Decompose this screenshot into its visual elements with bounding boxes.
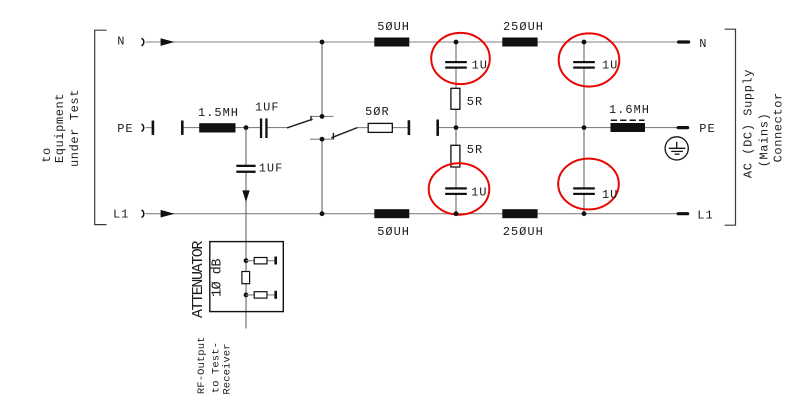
resistor 5R upper <box>451 88 460 109</box>
inductor 50UH (L1 line) <box>374 209 409 218</box>
wire N line <box>146 41 678 43</box>
svg-text:N: N <box>699 37 707 51</box>
node node L1/col322 <box>320 211 325 216</box>
svg-text:RF-Output: RF-Output <box>196 336 208 394</box>
svg-text:1UF: 1UF <box>259 162 284 176</box>
node node N/col584 <box>582 40 587 45</box>
wire column x=456 <box>455 42 457 214</box>
wire 1.5MH to node, to series cap <box>235 127 260 129</box>
arrow N line <box>161 39 173 46</box>
svg-text:25ØUH: 25ØUH <box>503 20 544 34</box>
switch blade upper <box>287 116 313 128</box>
inductor 1.6MH (PE line) <box>611 123 646 132</box>
PE terminal bar left b <box>181 121 184 135</box>
svg-text:1U: 1U <box>471 186 487 200</box>
switch blade lower <box>331 128 357 140</box>
node node L1/col456 <box>454 211 459 216</box>
svg-text:(Mains): (Mains) <box>757 113 771 168</box>
attenuator resistor middle <box>242 272 250 284</box>
red circle top-left cap <box>431 33 490 84</box>
svg-text:PE: PE <box>699 122 715 136</box>
svg-text:5ØR: 5ØR <box>365 105 390 119</box>
svg-text:5R: 5R <box>467 143 483 157</box>
capacitor 1U top col456 <box>445 61 467 69</box>
svg-text:25ØUH: 25ØUH <box>503 225 544 239</box>
arrow down to attenuator <box>242 190 249 202</box>
svg-text:1Ø dB: 1Ø dB <box>211 259 226 297</box>
L1 terminal stub right <box>677 212 690 215</box>
node switch contact lower <box>320 137 325 142</box>
wire column x=322 upper <box>321 42 323 116</box>
node node PE/col456 <box>454 125 459 130</box>
svg-text:1.5MH: 1.5MH <box>198 106 239 120</box>
inductor 1.5MH (PE line) <box>199 123 235 132</box>
node node L1/col584 <box>582 211 587 216</box>
wire switch contact stub upper <box>311 115 334 117</box>
svg-text:5ØUH: 5ØUH <box>377 20 410 34</box>
svg-text:1UF: 1UF <box>255 101 280 115</box>
svg-text:1U: 1U <box>602 188 618 202</box>
wire PE shunt branch x=246 down through attenuator <box>245 128 247 329</box>
connector arc N <box>142 38 144 46</box>
attenuator resistor bottom <box>254 292 267 298</box>
node node PE/col584 <box>582 125 587 130</box>
wire switch contact stub lower <box>310 138 333 140</box>
node attenuator node bottom <box>244 293 249 298</box>
wire switch to 50R <box>357 127 368 129</box>
svg-text:to Test-: to Test- <box>210 342 222 393</box>
resistor 5R lower <box>451 145 460 167</box>
svg-text:L1: L1 <box>113 207 129 221</box>
svg-text:1U: 1U <box>472 58 488 72</box>
svg-text:ATTENUATOR: ATTENUATOR <box>190 241 207 318</box>
connector arc PE <box>142 124 144 131</box>
wire series cap to switch <box>268 127 289 129</box>
attenuator terminal bar top <box>274 257 277 265</box>
wire 50R to bar <box>392 127 407 129</box>
PE mid bar b <box>436 120 439 136</box>
wire PE right section <box>439 127 677 129</box>
PE mid bar a <box>408 120 411 135</box>
wire PE left (connector to bar) <box>146 127 152 129</box>
svg-text:N: N <box>117 35 125 49</box>
attenuator wire top resistor <box>246 260 275 262</box>
node node PE/cap branch <box>244 125 249 130</box>
svg-text:PE: PE <box>117 122 133 136</box>
red circle bottom-left cap <box>429 163 490 214</box>
attenuator wire bottom resistor <box>246 294 275 296</box>
protective earth symbol <box>665 137 688 160</box>
inductor 50UH (N line) <box>374 38 409 47</box>
inductor 250UH (L1 line) <box>502 209 537 218</box>
node node N/col322 <box>320 40 325 45</box>
attenuator resistor top <box>254 258 267 264</box>
capacitor 1U bottom col456 <box>445 187 467 195</box>
arrow L1 line <box>161 210 173 217</box>
node switch contact upper <box>320 114 325 119</box>
svg-text:to: to <box>40 147 54 163</box>
node node N/col456 <box>454 40 459 45</box>
svg-text:Equipment: Equipment <box>53 93 67 163</box>
inductor 250UH (N line) <box>502 38 537 47</box>
red circle bottom-right cap <box>558 159 619 210</box>
right bracket (AC supply connector) <box>725 29 736 225</box>
dashed line above 1.6MH <box>611 119 645 121</box>
wire column x=584 <box>583 42 585 214</box>
svg-text:1U: 1U <box>602 58 618 72</box>
attenuator box <box>210 242 283 312</box>
svg-text:5R: 5R <box>467 95 483 109</box>
wire column x=322 lower <box>321 139 323 214</box>
node attenuator node top <box>244 258 249 263</box>
wire L1 line <box>146 213 678 215</box>
PE terminal bar left a <box>152 121 155 135</box>
capacitor 1U bottom col584 <box>573 187 595 195</box>
svg-text:5ØUH: 5ØUH <box>377 225 410 239</box>
wire PE bar to 1.5MH <box>184 127 201 129</box>
svg-text:AC (DC) Supply: AC (DC) Supply <box>742 69 756 178</box>
svg-text:Connector: Connector <box>771 92 785 162</box>
attenuator terminal bar bottom <box>274 291 277 299</box>
capacitor 1UF shunt plates <box>236 165 255 173</box>
svg-text:Receiver: Receiver <box>222 343 234 394</box>
red circle top-right cap <box>559 33 620 86</box>
svg-text:under Test: under Test <box>68 89 82 167</box>
capacitor 1UF series plates <box>260 118 268 138</box>
PE terminal stub right <box>677 126 690 129</box>
left bracket (to Equipment under Test) <box>95 30 107 224</box>
capacitor 1U top col584 <box>573 61 595 69</box>
resistor 50R <box>368 123 392 132</box>
svg-text:L1: L1 <box>697 209 713 223</box>
N terminal stub right <box>677 40 690 43</box>
svg-text:1.6MH: 1.6MH <box>609 103 650 117</box>
connector arc L1 <box>142 210 144 218</box>
